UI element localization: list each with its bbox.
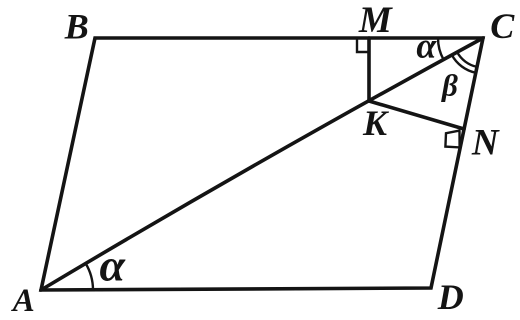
svg-text:α: α: [99, 240, 126, 291]
svg-text:K: K: [362, 103, 390, 143]
svg-text:M: M: [358, 0, 393, 41]
svg-text:N: N: [471, 123, 500, 164]
svg-text:β: β: [441, 68, 458, 103]
svg-text:α: α: [416, 26, 437, 66]
svg-text:C: C: [490, 6, 515, 46]
svg-text:B: B: [64, 7, 89, 47]
svg-text:D: D: [437, 277, 464, 317]
svg-text:A: A: [11, 283, 35, 319]
